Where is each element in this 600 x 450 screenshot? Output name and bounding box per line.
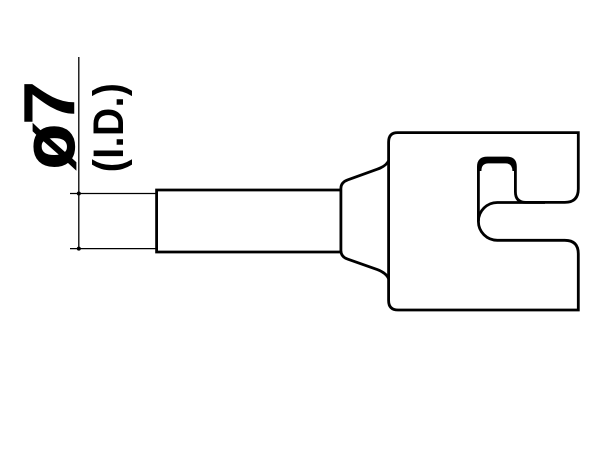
dimension extension line bottom (bore bottom) [70, 248, 157, 250]
nozzle tube outline [157, 190, 341, 252]
svg-text:(I.D.): (I.D.) [84, 83, 132, 173]
nozzle flare cone outline [341, 161, 389, 279]
dimension tick dot bottom [77, 247, 81, 251]
svg-text:7: 7 [10, 81, 90, 126]
slot inner channel line with end cap arc [478, 203, 545, 222]
svg-text:ø: ø [7, 124, 90, 169]
dimension extension line top (bore top) [70, 193, 157, 195]
dimension line vertical [78, 57, 80, 249]
nozzle body outline with J-slot [389, 133, 579, 310]
dimension tick dot top [77, 192, 81, 196]
island inner dome arc (thick top) [478, 158, 515, 171]
